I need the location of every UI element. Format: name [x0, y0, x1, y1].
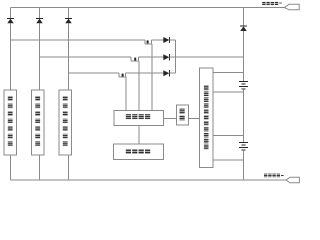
label: 供电母线- (bottom) — [264, 174, 284, 178]
wire: D6 cathode to junction column — [169, 72, 175, 74]
wire: comparator tap 4 (battery 2 bottom) — [213, 159, 244, 161]
diode D7 (battery discharge diode) — [240, 25, 247, 27]
wire: S3 gate control line — [125, 77, 127, 111]
wire: solar column 3 upper segment — [68, 8, 70, 19]
wire: battery 1 to battery 2 — [243, 89, 245, 143]
wire: diode junction column (joins D4,D5,D6) — [175, 40, 177, 73]
wire: comparator tap 2 (battery 1 bottom) — [213, 91, 244, 93]
battery GB1 (cells group 1) — [239, 82, 248, 90]
wire: box 3 return to bottom bus — [68, 155, 70, 180]
wire: lock to unlock circuit — [138, 126, 140, 144]
wire: charge feed to battery string — [176, 56, 244, 58]
comparator box 单体电池端电压比较电路 — [200, 68, 214, 168]
diode D1 (blocking, column 1) — [7, 17, 14, 19]
switch S3 (charge control switch, rail C) — [119, 73, 126, 77]
solar array box 1 太阳电池充电阵 — [4, 90, 17, 155]
battery GB2 (cells group 2) — [239, 143, 248, 151]
switch S2 (charge control switch, rail B) — [131, 57, 139, 61]
wire: box 2 return to bottom bus — [39, 155, 41, 180]
wire: comparator tap 1 (battery 1 top) — [213, 72, 244, 74]
wire: battery column from top bus — [243, 8, 245, 27]
label: 供电母线+ (top) — [262, 2, 282, 6]
wire: OR gate output to comparator box — [188, 117, 199, 119]
wire: bottom supply bus - — [11, 179, 287, 181]
OR gate box 或门 — [177, 105, 189, 125]
switch S1 (charge control switch, rail A) — [145, 40, 152, 44]
diode D3 (blocking, column 3) — [65, 17, 72, 19]
wire: charge rail B from column 2 — [40, 56, 132, 58]
wire: solar column 3 lower segment — [68, 23, 70, 90]
wire: battery 2 to bottom bus — [243, 150, 245, 180]
wire: top supply bus + — [11, 7, 285, 9]
solar array box 2 太阳电池充电阵 — [32, 90, 45, 155]
wire: rail B from S2 to diode D5 — [139, 56, 164, 58]
wire: box 1 return to bottom bus — [10, 155, 12, 180]
diode D2 (blocking, column 2) — [36, 17, 43, 19]
diode D5 (rail B isolation) — [163, 54, 169, 60]
wire: solar column 1 upper segment — [10, 8, 12, 19]
wire: charge rail A from column 1 — [11, 39, 146, 41]
wire: rail C from S3 to diode D6 — [126, 72, 164, 74]
wire: battery column D7 to battery 1 — [243, 31, 245, 82]
wire: S1 gate control line — [151, 44, 153, 111]
wire: S2 gate control line — [138, 61, 140, 111]
wire: solar column 1 lower segment — [10, 23, 12, 90]
wire: lock circuit output to OR gate — [164, 117, 177, 119]
node: supply bus + terminal tag — [285, 4, 300, 10]
wire: comparator tap 3 (battery 2 top) — [213, 135, 244, 137]
wire: rail A from S1 to diode D4 — [152, 39, 164, 41]
wire: D5 cathode to junction column — [169, 56, 175, 58]
wire: solar column 2 lower segment — [39, 23, 41, 90]
wire: D4 cathode to junction column — [169, 39, 175, 41]
wire: charge rail C from column 3 — [69, 72, 120, 74]
solar array box 3 太阳电池充电阵 — [59, 90, 72, 155]
unlock circuit box 解锁电路 — [114, 144, 164, 160]
lock circuit box 锁定电路 — [114, 111, 164, 126]
diode D6 (rail C isolation) — [163, 70, 169, 76]
diode D4 (rail A isolation) — [163, 37, 169, 43]
node: supply bus - terminal tag — [286, 177, 299, 183]
wire: solar column 2 upper segment — [39, 8, 41, 19]
